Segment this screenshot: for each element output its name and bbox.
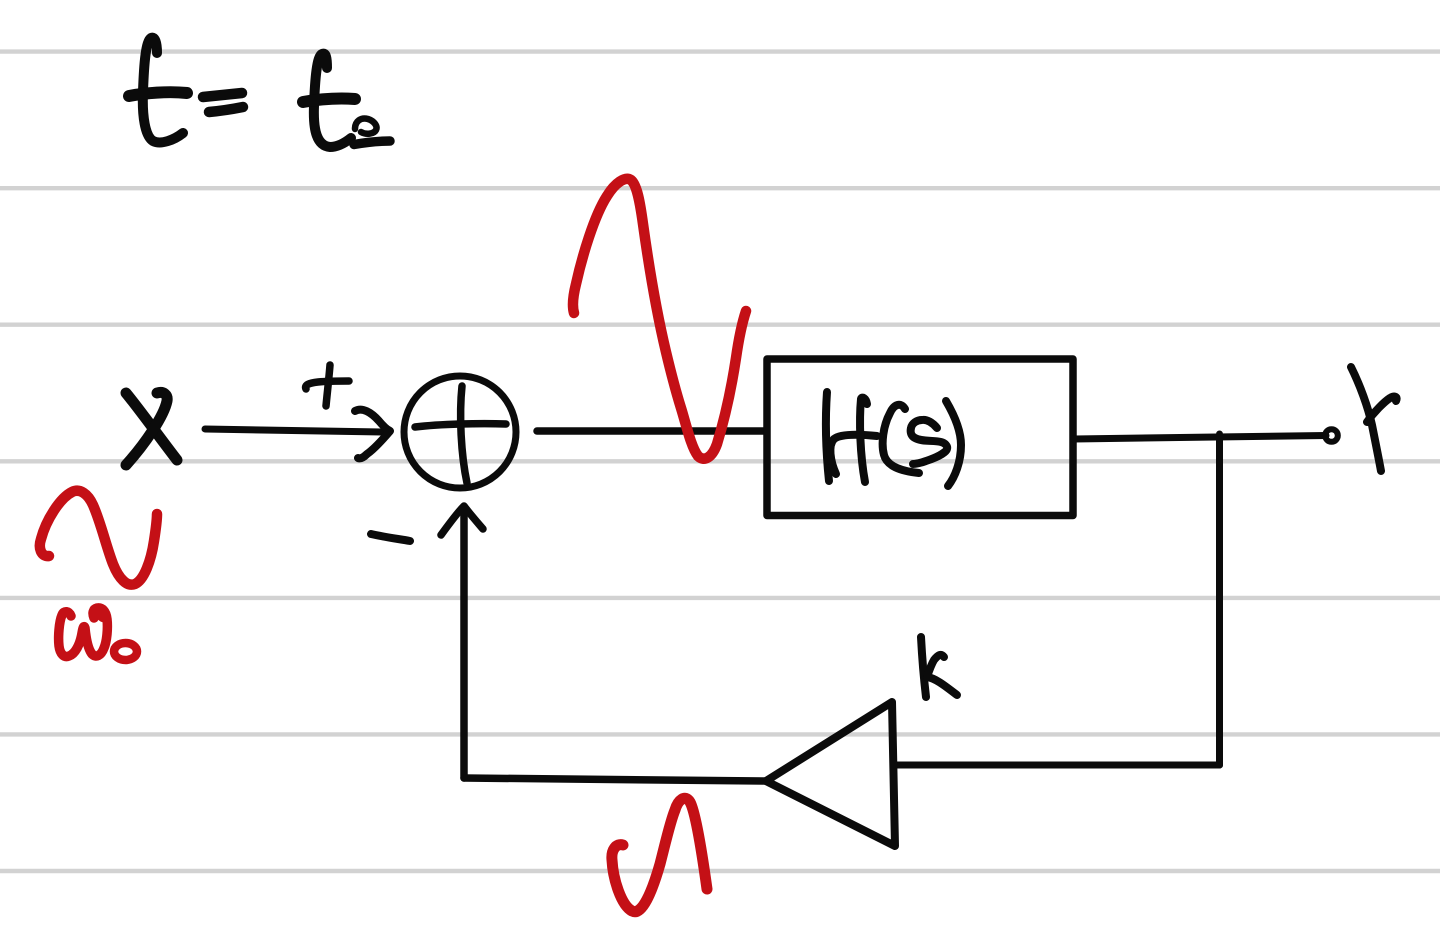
amplifier k triangle [766,702,895,846]
wire feedback up into junction [460,508,468,778]
wire feedback right horizontal [895,762,1220,769]
label k [921,637,957,697]
summing junction [404,376,516,488]
ruled line 2 [0,186,1440,190]
red sine squiggle input with label ω0 [40,491,157,585]
red squiggle feedback signal [612,798,707,911]
wire feedback bottom to left [464,778,766,781]
wire output branch down [1216,434,1223,765]
minus sign [371,534,410,541]
plus sign [306,381,349,389]
ruled line 6 [0,732,1440,736]
ruled line 5 [0,596,1440,600]
node X [126,392,177,465]
wire input arrow [205,429,382,432]
ruled line 4 [0,459,1440,463]
ruled line 7 [0,869,1440,873]
wire junction to block [537,427,766,435]
label t=t2 [129,38,390,147]
wire block to output node [1074,436,1326,440]
block H(s) [767,359,1073,516]
ruled line 1 [0,49,1440,53]
node Y [1351,367,1397,471]
output node dot [1325,429,1338,442]
red sine squiggle error signal [573,179,746,459]
ruled line 3 [0,323,1440,327]
